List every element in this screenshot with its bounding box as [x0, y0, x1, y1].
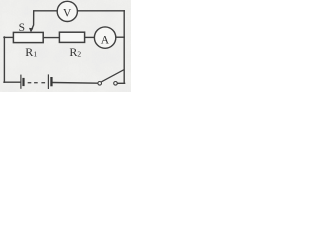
wire: bottom right (switch to right vertical): [117, 82, 124, 84]
svg-text:S: S: [19, 22, 25, 34]
svg-text:A: A: [101, 35, 110, 47]
battery cell 2 positive plate (long thin): [47, 74, 49, 89]
wire: top right (voltmeter to right vertical): [78, 10, 125, 12]
wire: top left (slider corner to voltmeter): [34, 10, 58, 12]
ammeter A circle: [94, 27, 115, 48]
wire: R1 to R2: [43, 37, 59, 39]
battery cell 1 positive plate (long thin): [20, 75, 22, 89]
resistor R2: [59, 32, 84, 42]
wire: right vertical (voltmeter branch down through ammeter junction): [123, 11, 125, 84]
switch contact left: [98, 82, 102, 86]
battery cell 2 negative plate (short thick): [50, 77, 52, 86]
rheostat slider wire from top wire: [32, 11, 34, 29]
battery cell 1 negative plate (short thick): [22, 78, 24, 86]
svg-text:V: V: [63, 8, 72, 20]
rheostat slider arrowhead: [29, 28, 33, 33]
voltmeter V circle: [57, 1, 77, 21]
wire: left to R1: [4, 36, 13, 38]
wire: bottom middle (battery cell 2 to switch): [53, 82, 98, 85]
resistor R1 (rheostat body): [13, 32, 43, 42]
switch lever (open): [101, 70, 123, 82]
wire: bottom left (to battery cell 1): [4, 81, 21, 83]
wire: ammeter to right vertical: [115, 36, 124, 38]
wire: R2 to ammeter: [85, 36, 95, 38]
wire: left vertical: [3, 37, 5, 82]
battery internal dashed link: [28, 82, 45, 83]
switch contact right: [114, 82, 118, 86]
